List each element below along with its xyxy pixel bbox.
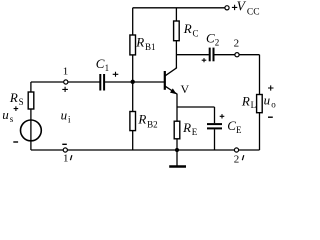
label RS: [9, 90, 24, 107]
label plus us: [14, 106, 19, 111]
wire emitter branch to CE: [177, 106, 215, 108]
junction dot base/divider: [131, 80, 135, 84]
wire RC column: [175, 8, 177, 68]
resistor RE body: [174, 121, 180, 139]
label minus uo: [268, 116, 273, 118]
transistor V emitter arrowhead: [170, 88, 177, 94]
label uo: [264, 92, 277, 109]
wire RB1/RB2 divider column: [132, 8, 134, 150]
label node 2 prime: [234, 153, 244, 165]
wire top supply rail: [133, 7, 225, 9]
svg-text:S: S: [19, 97, 24, 107]
transistor V base bar: [164, 71, 166, 90]
resistor RC body: [174, 21, 180, 41]
capacitor CE plates: [207, 123, 222, 125]
label RC: [183, 21, 199, 38]
label RL: [241, 93, 256, 110]
label node 1 prime: [63, 153, 72, 165]
resistor RS body: [28, 92, 34, 109]
wire C2 to node 2: [214, 54, 235, 56]
label CE: [227, 118, 242, 135]
transistor V emitter lead: [165, 86, 177, 94]
source us circle: [21, 120, 42, 141]
label minus ui bottom: [62, 143, 67, 145]
svg-text:R: R: [9, 90, 18, 105]
svg-text:1: 1: [105, 63, 110, 73]
svg-text:V: V: [237, 0, 247, 13]
label C1: [96, 56, 109, 73]
resistor RB2 body: [130, 112, 136, 131]
label us: [2, 107, 14, 124]
capacitor C1 plates: [99, 74, 101, 91]
label plus at C2: [202, 58, 207, 62]
node 1' circle: [63, 148, 67, 152]
node +Vcc terminal circle: [225, 6, 229, 10]
junction dot emitter/ground: [175, 148, 179, 152]
label minus us: [13, 141, 18, 143]
resistor RB1 body: [130, 35, 136, 55]
label C2: [206, 31, 219, 48]
label +Vcc: [232, 0, 260, 17]
svg-text:V: V: [181, 82, 190, 96]
label plus ui top: [62, 87, 68, 92]
svg-text:C: C: [96, 56, 105, 71]
svg-text:B1: B1: [145, 42, 156, 52]
wire right rail RL column: [259, 55, 261, 150]
svg-text:2: 2: [215, 38, 220, 48]
svg-text:L: L: [251, 100, 257, 110]
resistor RL body: [257, 95, 263, 113]
ground stub: [176, 150, 178, 166]
svg-text:u: u: [264, 92, 271, 107]
label plus uo: [268, 85, 274, 90]
svg-text:s: s: [10, 114, 14, 124]
svg-text:1: 1: [63, 153, 69, 165]
capacitor C2 plates: [209, 48, 211, 62]
transistor V collector lead: [165, 67, 177, 76]
wire C1 right to junction: [105, 81, 133, 83]
svg-text:R: R: [135, 34, 144, 49]
svg-text:CC: CC: [247, 7, 260, 17]
svg-text:C: C: [193, 29, 199, 39]
wire left source column: [30, 82, 32, 150]
wire bottom rail: [31, 149, 260, 151]
label RE: [182, 120, 198, 137]
label plus at CE: [220, 114, 225, 118]
node 1 circle: [64, 80, 68, 84]
svg-text:1: 1: [63, 66, 69, 78]
svg-text:u: u: [2, 107, 9, 122]
svg-text:B2: B2: [147, 119, 158, 129]
label plus at C1: [113, 72, 119, 77]
svg-text:E: E: [236, 125, 242, 135]
svg-text:E: E: [192, 127, 198, 137]
wire output (RC tap to C2 to node2 to right rail): [176, 54, 209, 56]
wire CE bottom lead: [214, 129, 216, 150]
svg-text:C: C: [206, 31, 215, 46]
label ui: [61, 108, 71, 125]
wire base lead: [133, 81, 164, 83]
node 2 circle: [235, 53, 239, 57]
wire CE top lead: [214, 107, 216, 123]
svg-text:R: R: [182, 120, 191, 135]
label RB1: [135, 34, 155, 52]
svg-text:R: R: [137, 112, 146, 127]
wire emitter column down to rail: [176, 94, 178, 150]
svg-text:R: R: [241, 93, 250, 108]
svg-text:2: 2: [234, 153, 240, 165]
wire node 2 to right rail corner: [239, 54, 259, 56]
svg-text:R: R: [183, 21, 192, 36]
svg-text:u: u: [61, 108, 68, 123]
label RB2: [137, 112, 157, 130]
svg-text:C: C: [227, 118, 236, 133]
svg-text:i: i: [68, 114, 71, 124]
svg-text:o: o: [271, 99, 276, 109]
wire input top (node1 to C1 to base junction): [31, 81, 100, 83]
svg-text:2: 2: [234, 37, 240, 49]
node 2' circle: [234, 148, 238, 152]
ground bar: [169, 165, 186, 167]
